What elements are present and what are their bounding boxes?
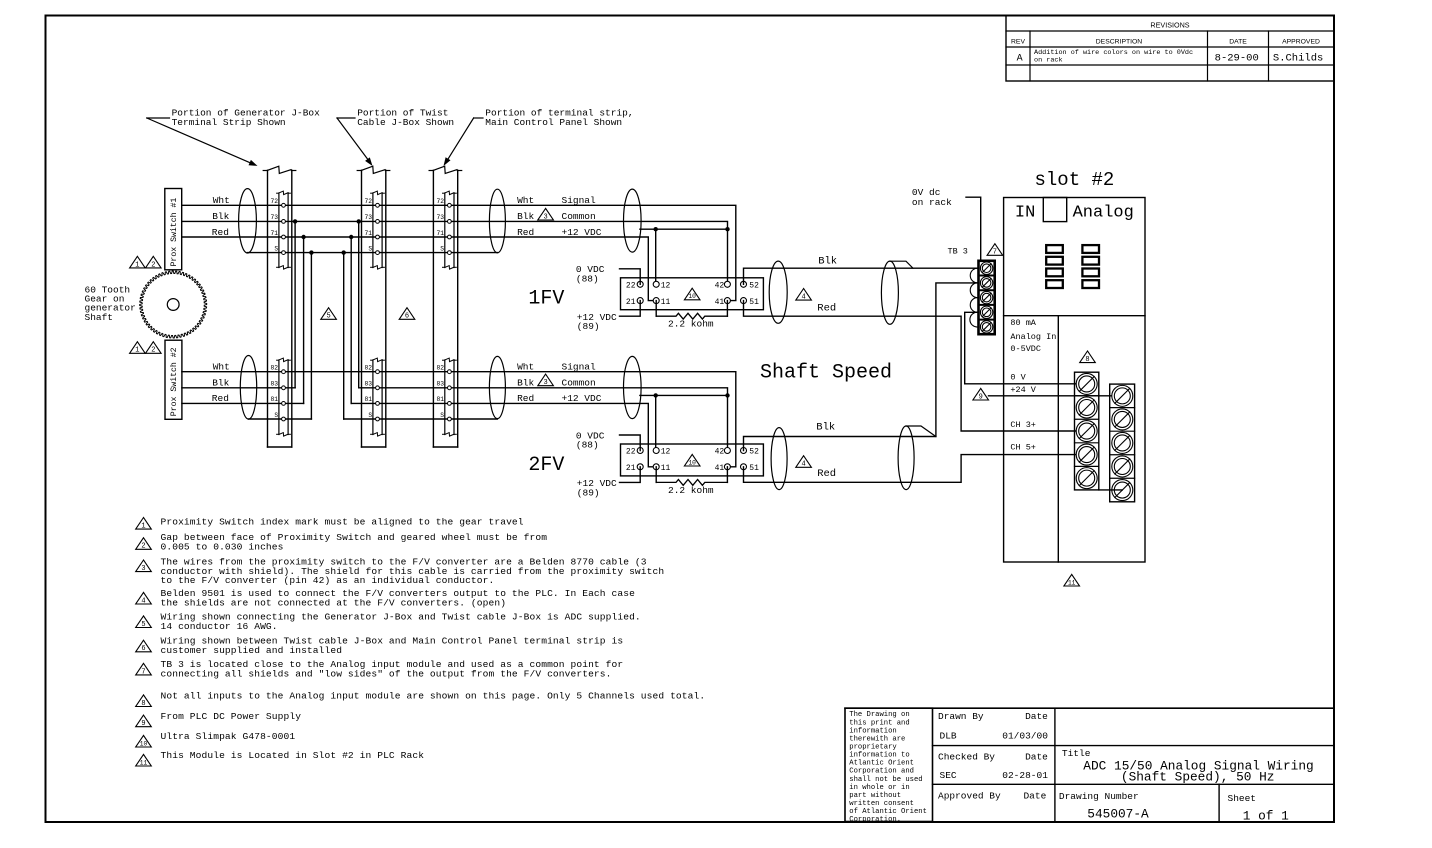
svg-text:73: 73 <box>365 214 373 221</box>
F/V converter 2FV pin terminals 22 21 12 11 42 41 52 51 <box>626 448 759 474</box>
svg-text:14 conductor 16 AWG.: 14 conductor 16 AWG. <box>161 621 278 632</box>
note marker triangle 3 (1FV run) <box>538 208 554 221</box>
+12 VDC (89) supply stub to pin 21 of F/V converter 2FV <box>577 467 640 499</box>
proximity switch PS1 (Prox Switch #1) <box>165 189 182 270</box>
wire Wht/Signal net (terminal 82 row) <box>182 372 736 467</box>
note 6 marker triangle and text <box>136 635 624 655</box>
svg-text:Ultra Slimpak G478-0001: Ultra Slimpak G478-0001 <box>161 731 296 742</box>
wire Wht/Signal net (terminal 72 row) <box>182 205 736 300</box>
svg-text:Proximity Switch index mark mu: Proximity Switch index mark must be alig… <box>161 517 524 528</box>
svg-text:2: 2 <box>151 261 155 269</box>
svg-text:information: information <box>849 727 896 735</box>
svg-text:83: 83 <box>436 381 444 388</box>
svg-text:Red: Red <box>212 227 229 238</box>
jumper drops between J-boxes (common/+12/shield shared) <box>293 219 361 419</box>
svg-text:4: 4 <box>801 461 805 469</box>
svg-text:this print and: this print and <box>849 719 909 727</box>
wire Red/+12VDC net (terminal 81 row) <box>182 403 653 466</box>
svg-text:REVISIONS: REVISIONS <box>1150 20 1189 29</box>
note 11 marker triangle and text <box>136 750 425 766</box>
note 3 marker triangle and text <box>136 557 665 587</box>
svg-text:71: 71 <box>365 230 373 237</box>
title text ADC 15/50 Analog Signal Wiring (Shaft Speed), 50 Hz <box>1062 748 1314 784</box>
labels Blk Red on 1FV output <box>817 255 837 314</box>
svg-text:Blk: Blk <box>212 378 229 389</box>
wire Red output of 2FV (pin 51) to module CH 5+ <box>744 455 1087 483</box>
label 1FV <box>528 288 564 311</box>
svg-text:(89): (89) <box>577 487 600 498</box>
svg-text:4: 4 <box>141 597 145 605</box>
svg-text:1FV: 1FV <box>528 288 564 311</box>
svg-text:Blk: Blk <box>517 211 534 222</box>
svg-text:3: 3 <box>543 379 547 387</box>
svg-text:The Drawing on: The Drawing on <box>849 711 909 719</box>
shield conductor to pin 42 of 1FV <box>640 227 730 284</box>
svg-text:Analog In: Analog In <box>1010 332 1056 342</box>
note marker triangle 4 (2FV output cable) <box>796 456 812 469</box>
title block <box>845 708 1334 821</box>
svg-text:part without: part without <box>849 792 901 800</box>
wire +24 V from PLC supply to module terminal <box>989 395 1123 397</box>
svg-text:+12 VDC: +12 VDC <box>562 227 602 238</box>
svg-text:80 mA: 80 mA <box>1010 318 1036 328</box>
module ratings text 80 mA Analog In 0-5VDC <box>1010 318 1056 354</box>
svg-text:71: 71 <box>436 230 444 237</box>
svg-text:Not all inputs to the Analog i: Not all inputs to the Analog input modul… <box>161 691 706 702</box>
svg-text:73: 73 <box>436 214 444 221</box>
svg-text:Prox Switch #2: Prox Switch #2 <box>169 347 179 416</box>
svg-text:2.2 kohm: 2.2 kohm <box>668 319 714 330</box>
svg-text:6: 6 <box>141 645 145 653</box>
title block disclaimer text <box>849 711 927 824</box>
svg-text:Red: Red <box>517 227 534 238</box>
svg-text:Date: Date <box>1025 711 1048 722</box>
svg-text:10: 10 <box>688 459 696 466</box>
note marker triangles 1 and 2 at PS1 <box>130 256 162 269</box>
0 VDC (88) supply stub to pin 22 of F/V converter 1FV <box>576 264 640 284</box>
label slot #2 <box>1035 169 1115 191</box>
svg-text:TB 3: TB 3 <box>948 247 968 257</box>
svg-text:11: 11 <box>661 464 671 473</box>
svg-text:A: A <box>1017 53 1023 64</box>
leader label: Portion of terminal strip, Main Control Panel Shown <box>444 107 634 166</box>
svg-text:0-5VDC: 0-5VDC <box>1010 344 1041 354</box>
svg-text:8: 8 <box>1085 356 1089 364</box>
labels Blk Red on 2FV output <box>816 422 836 481</box>
wire labels TS3 to 1FV <box>517 195 602 238</box>
cable ellipse 2FV output near converter <box>771 428 787 490</box>
svg-text:9: 9 <box>141 720 145 728</box>
svg-text:9: 9 <box>979 393 983 401</box>
svg-text:41: 41 <box>715 298 725 307</box>
svg-text:42: 42 <box>715 448 725 457</box>
cable ellipse 1FV output near converter <box>769 261 787 323</box>
svg-text:Corporation.: Corporation. <box>849 816 901 824</box>
note 5 marker triangle and text <box>136 612 641 632</box>
svg-text:on rack: on rack <box>912 197 952 208</box>
svg-text:(88): (88) <box>576 273 599 284</box>
svg-text:CH 5+: CH 5+ <box>1010 442 1036 452</box>
wire Red output of 1FV (pin 51) to module CH 3+ <box>744 301 1087 431</box>
svg-text:0.005 to 0.030 inches: 0.005 to 0.030 inches <box>161 542 284 553</box>
svg-text:CH 3+: CH 3+ <box>1010 420 1036 430</box>
cable shield ellipse PS1 cable <box>239 189 257 253</box>
svg-text:+24 V: +24 V <box>1010 385 1036 395</box>
svg-text:01/03/00: 01/03/00 <box>1002 731 1048 742</box>
svg-text:1: 1 <box>135 261 139 269</box>
leader label: Portion of Generator J-Box Terminal Strip Shown <box>147 107 320 166</box>
svg-text:Shaft: Shaft <box>85 312 114 323</box>
svg-text:Wht: Wht <box>213 362 230 373</box>
note marker triangle 9 (from PLC DC power supply) <box>973 388 989 401</box>
0 VDC (88) supply stub to pin 22 of F/V converter 2FV <box>576 430 640 450</box>
note 10 marker triangle and text <box>136 731 296 747</box>
svg-text:+12 VDC: +12 VDC <box>562 393 602 404</box>
svg-text:in whole or in: in whole or in <box>849 784 909 792</box>
cable ellipse 2FV output near TB 3 with shield tap <box>898 426 936 490</box>
wire Blk output of 1FV (pin 52) to TB 3 screw 1 <box>744 268 979 284</box>
svg-text:Analog: Analog <box>1073 204 1134 223</box>
svg-text:Approved By: Approved By <box>938 791 1001 802</box>
svg-text:Common: Common <box>562 211 596 222</box>
note marker triangles 1 and 2 at PS2 <box>130 342 162 355</box>
terminal block TB 3 <box>970 261 995 334</box>
F/V converter 1FV pin terminals 22 21 12 11 42 41 52 51 <box>626 281 759 307</box>
svg-text:proprietary: proprietary <box>849 743 897 751</box>
svg-text:72: 72 <box>365 198 373 205</box>
svg-text:This Module is Located in Slot: This Module is Located in Slot #2 in PLC… <box>161 750 425 761</box>
svg-text:Drawn By: Drawn By <box>938 711 984 722</box>
svg-text:IN: IN <box>1015 204 1035 223</box>
cable shield ellipse at 2FV input <box>624 356 642 418</box>
svg-text:51: 51 <box>749 298 759 307</box>
svg-text:Cable J-Box Shown: Cable J-Box Shown <box>357 117 454 128</box>
svg-text:customer supplied and installe: customer supplied and installed <box>161 645 343 656</box>
note marker triangle 7 at TB 3 <box>987 244 1003 257</box>
svg-text:22: 22 <box>626 448 636 457</box>
svg-text:Date: Date <box>1023 791 1046 802</box>
svg-text:Blk: Blk <box>816 422 835 434</box>
cable ellipse 1FV output near TB 3 with shield tap <box>881 261 913 324</box>
svg-text:S: S <box>274 245 278 252</box>
label 2FV <box>528 454 564 477</box>
wire labels TS3 to 2FV <box>517 362 602 405</box>
svg-text:Signal: Signal <box>562 362 597 373</box>
note 2 marker triangle and text <box>136 532 548 552</box>
sheet number 1 of 1 <box>1228 793 1290 824</box>
svg-text:10: 10 <box>140 740 148 747</box>
svg-text:Prox Switch #1: Prox Switch #1 <box>169 198 179 267</box>
cable shield ellipse after TS3 (2FV run) <box>489 356 505 418</box>
svg-text:DESCRIPTION: DESCRIPTION <box>1096 39 1143 46</box>
svg-text:(88): (88) <box>576 440 599 451</box>
cable shield ellipse PS2 cable <box>240 356 256 420</box>
svg-text:shall not be used: shall not be used <box>849 776 922 784</box>
svg-text:Blk: Blk <box>212 211 229 222</box>
svg-text:Red: Red <box>517 393 534 404</box>
shield conductor to pin 42 of 2FV <box>640 393 730 450</box>
title block drawn/checked/approved cells <box>938 711 1048 802</box>
svg-text:12: 12 <box>661 282 671 291</box>
svg-text:72: 72 <box>436 198 444 205</box>
svg-text:3: 3 <box>141 565 145 573</box>
svg-text:0 V: 0 V <box>1010 373 1026 383</box>
svg-text:S.Childs: S.Childs <box>1273 52 1323 64</box>
label Shaft Speed <box>760 362 892 385</box>
svg-text:to the F/V converter (pin 42): to the F/V converter (pin 42) as an indi… <box>161 575 495 586</box>
note marker triangle 4 (1FV output cable) <box>796 289 812 302</box>
svg-text:83: 83 <box>365 381 373 388</box>
svg-text:545007-A: 545007-A <box>1087 807 1149 822</box>
PLC analog input module (slot #2) <box>1004 198 1145 563</box>
svg-text:8: 8 <box>141 700 145 708</box>
svg-text:21: 21 <box>626 464 636 473</box>
svg-text:Checked By: Checked By <box>938 752 995 763</box>
note marker triangle 11 below module <box>1064 574 1080 586</box>
svg-text:1: 1 <box>141 523 145 531</box>
gear label text <box>85 284 136 323</box>
note marker triangle 5 (ADC supplied wiring) <box>321 308 337 321</box>
module terminal column B (5 screws) <box>1110 384 1135 502</box>
note 9 marker triangle and text <box>136 711 302 728</box>
resistor 2.2 kohm across pins 11-41 of F/V converter 1FV <box>656 301 727 330</box>
cable shield ellipse at 1FV input <box>624 189 642 252</box>
svg-text:81: 81 <box>436 396 444 403</box>
svg-text:7: 7 <box>993 249 997 257</box>
wire Blk/Common net (terminal 73 row) <box>182 221 728 284</box>
svg-text:slot #2: slot #2 <box>1035 169 1115 191</box>
svg-text:11: 11 <box>140 759 148 766</box>
svg-text:72: 72 <box>271 198 279 205</box>
svg-text:Common: Common <box>562 378 596 389</box>
svg-text:SEC: SEC <box>940 770 957 781</box>
svg-text:2FV: 2FV <box>528 454 564 477</box>
svg-text:12: 12 <box>661 448 671 457</box>
svg-text:5: 5 <box>141 621 145 629</box>
terminal strip TS3 (Main Control Panel) <box>429 166 462 447</box>
svg-text:DLB: DLB <box>940 731 957 742</box>
svg-text:Blk: Blk <box>818 255 837 267</box>
wire Blk output of 2FV (pin 52) to TB 3 screw 2 <box>744 283 979 451</box>
note marker triangle 10 inside F/V converter 2FV <box>684 454 700 466</box>
svg-text:S: S <box>368 245 372 252</box>
svg-text:1 of 1: 1 of 1 <box>1243 809 1289 824</box>
svg-text:connecting all shields and "lo: connecting all shields and "low sides" o… <box>161 668 612 679</box>
note 8 marker triangle and text <box>136 691 706 708</box>
svg-text:73: 73 <box>271 214 279 221</box>
svg-text:S: S <box>368 412 372 419</box>
svg-text:11: 11 <box>661 298 671 307</box>
wire shield S (bottom run) <box>249 418 498 420</box>
svg-text:REV: REV <box>1011 39 1025 46</box>
note 4 marker triangle and text <box>136 588 635 608</box>
svg-text:2: 2 <box>151 347 155 355</box>
link wire to column B screw 5 <box>1099 489 1123 491</box>
terminal strip TS1 (Generator J-Box) <box>263 166 296 447</box>
svg-text:From PLC DC Power Supply: From PLC DC Power Supply <box>161 711 302 722</box>
svg-text:52: 52 <box>749 282 759 291</box>
svg-text:42: 42 <box>715 282 725 291</box>
wire TB 3 screw 4 to module 0 V terminal <box>965 312 1087 384</box>
svg-text:8-29-00: 8-29-00 <box>1215 52 1259 64</box>
svg-text:2.2 kohm: 2.2 kohm <box>668 485 714 496</box>
svg-text:Red: Red <box>212 393 229 404</box>
wire labels PS2 to TS1 <box>212 362 230 405</box>
svg-text:11: 11 <box>1068 579 1076 586</box>
wire shield S (top run) <box>248 252 498 254</box>
svg-text:S: S <box>440 245 444 252</box>
svg-text:Shaft Speed: Shaft Speed <box>760 362 892 385</box>
wire Blk/Common net (terminal 83 row) <box>182 388 728 451</box>
60 tooth gear on generator shaft <box>140 271 207 338</box>
svg-text:22: 22 <box>626 282 636 291</box>
svg-text:02-28-01: 02-28-01 <box>1002 770 1048 781</box>
svg-text:Drawing Number: Drawing Number <box>1059 791 1139 802</box>
revisions table <box>1006 16 1334 82</box>
svg-text:1: 1 <box>135 347 139 355</box>
svg-text:Signal: Signal <box>562 195 597 206</box>
svg-text:S: S <box>440 412 444 419</box>
svg-text:2: 2 <box>141 543 145 551</box>
wire Red/+12VDC net (terminal 71 row) <box>182 237 654 301</box>
note marker triangle 8 inside module <box>1080 351 1096 364</box>
svg-text:52: 52 <box>749 448 759 457</box>
svg-text:Date: Date <box>1025 752 1048 763</box>
terminal strip TS2 (Twist Cable J-Box) <box>357 166 390 447</box>
svg-text:Red: Red <box>817 468 836 480</box>
svg-text:DATE: DATE <box>1229 39 1247 46</box>
proximity switch PS2 (Prox Switch #2) <box>165 340 182 419</box>
svg-text:5: 5 <box>326 313 330 321</box>
leader label: Portion of Twist Cable J-Box Shown <box>337 107 454 166</box>
svg-text:82: 82 <box>271 365 279 372</box>
svg-text:82: 82 <box>365 365 373 372</box>
svg-text:on rack: on rack <box>1034 57 1063 65</box>
svg-text:71: 71 <box>271 230 279 237</box>
svg-text:Red: Red <box>817 302 836 314</box>
svg-text:therewith are: therewith are <box>849 735 905 743</box>
svg-text:Corporation and: Corporation and <box>849 768 914 776</box>
svg-text:51: 51 <box>749 464 759 473</box>
svg-text:21: 21 <box>626 298 636 307</box>
svg-text:Wht: Wht <box>213 195 230 206</box>
labels IN Analog on module <box>1015 204 1134 223</box>
svg-text:41: 41 <box>715 464 725 473</box>
svg-text:written consent: written consent <box>849 800 914 808</box>
note 1 marker triangle and text <box>136 517 524 531</box>
0V dc on rack supply wire to TB 3 <box>912 187 981 261</box>
svg-text:APPROVED: APPROVED <box>1282 39 1320 46</box>
svg-text:S: S <box>274 412 278 419</box>
cable shield ellipse after TS3 (1FV run) <box>489 189 505 253</box>
svg-text:(89): (89) <box>577 321 600 332</box>
module status LED indicators <box>1046 245 1099 288</box>
F/V converter 1FV <box>621 278 764 310</box>
svg-text:6: 6 <box>405 313 409 321</box>
drawing number 545007-A <box>1059 791 1149 822</box>
module terminal labels <box>1010 373 1036 453</box>
note marker triangle 10 inside F/V converter 1FV <box>684 288 700 300</box>
module terminal column A (5 screws) <box>1075 372 1099 490</box>
F/V converter 2FV <box>621 444 764 476</box>
wire labels PS1 to TS1 <box>212 195 230 238</box>
svg-text:(Shaft Speed), 50 Hz: (Shaft Speed), 50 Hz <box>1121 770 1275 785</box>
svg-text:10: 10 <box>688 293 696 300</box>
svg-text:Terminal Strip Shown: Terminal Strip Shown <box>172 117 286 128</box>
+12 VDC (89) supply stub to pin 21 of F/V converter 1FV <box>577 301 640 333</box>
svg-text:Sheet: Sheet <box>1228 793 1257 804</box>
svg-text:83: 83 <box>271 381 279 388</box>
svg-text:Wht: Wht <box>517 195 534 206</box>
svg-text:of Atlantic Orient: of Atlantic Orient <box>849 808 927 816</box>
note marker triangle 6 (customer supplied wiring) <box>399 308 415 321</box>
svg-text:7: 7 <box>141 668 145 676</box>
svg-text:81: 81 <box>365 396 373 403</box>
svg-text:Wht: Wht <box>517 362 534 373</box>
svg-text:Main Control Panel Shown: Main Control Panel Shown <box>485 117 622 128</box>
note marker triangle 3 (2FV run) <box>538 374 554 387</box>
svg-text:3: 3 <box>543 213 547 221</box>
resistor 2.2 kohm across pins 11-41 of F/V converter 2FV <box>656 467 727 496</box>
svg-text:information to: information to <box>849 752 909 760</box>
svg-text:82: 82 <box>436 365 444 372</box>
label TB 3 <box>948 247 968 257</box>
svg-text:81: 81 <box>271 396 279 403</box>
svg-text:the shields are not connected: the shields are not connected at the F/V… <box>161 597 507 608</box>
svg-text:Blk: Blk <box>517 378 534 389</box>
note 7 marker triangle and text <box>136 659 624 679</box>
svg-text:Atlantic Orient: Atlantic Orient <box>849 760 914 768</box>
svg-text:4: 4 <box>801 294 805 302</box>
